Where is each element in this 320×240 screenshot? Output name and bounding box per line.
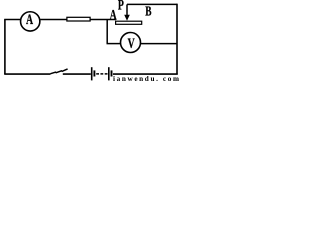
svg-text:ianwendu. com: ianwendu. com	[113, 75, 179, 82]
svg-text:A: A	[26, 11, 33, 27]
battery cell 2 long plate	[108, 67, 110, 80]
wire: slider to top-right corner	[127, 3, 177, 5]
wire: resistor to rheostat terminal A	[91, 19, 116, 21]
ammeter A1 circle	[21, 12, 40, 31]
voltmeter V1 circle	[121, 33, 141, 53]
battery cell 1 long plate	[91, 67, 93, 80]
wire: bottom-left horizontal	[4, 73, 50, 75]
wire: junction under A down to voltmeter	[106, 20, 108, 44]
battery cell 2 short plate	[111, 70, 113, 76]
svg-text:A: A	[110, 6, 117, 22]
wire: top-left horizontal to ammeter	[4, 19, 20, 21]
svg-text:V: V	[128, 35, 135, 51]
battery cell 1 short plate	[93, 70, 95, 76]
wire: left vertical	[4, 19, 6, 74]
wire: switch to battery	[63, 73, 91, 75]
wire: right vertical	[176, 4, 178, 75]
rheostat body	[116, 21, 142, 24]
wire: voltmeter left lead	[107, 43, 121, 45]
wire: battery to bottom-right corner	[113, 73, 178, 75]
switch S blade (open)	[51, 69, 68, 74]
wire: voltmeter right lead	[140, 43, 177, 45]
wire: ammeter to resistor	[40, 19, 66, 21]
svg-text:P: P	[118, 0, 124, 13]
rheostat slider arrowhead	[124, 15, 130, 21]
battery dashed link	[96, 73, 107, 75]
resistor R1	[67, 17, 90, 21]
rheostat slider wire P	[126, 4, 128, 15]
